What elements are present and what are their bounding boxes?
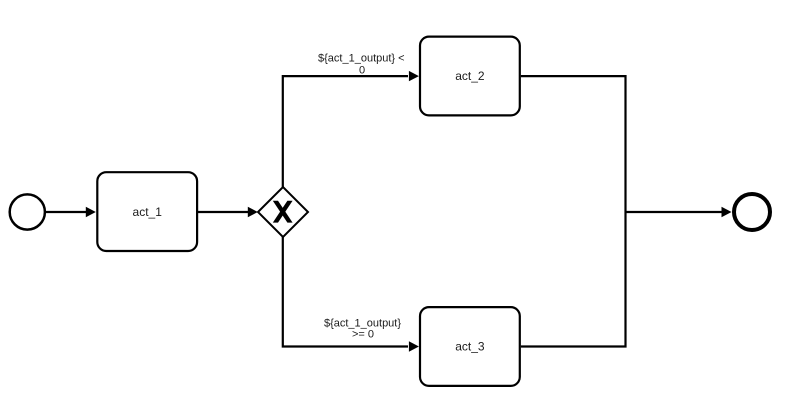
start event (10, 194, 45, 229)
svg-text:${act_1_output}: ${act_1_output} (324, 317, 401, 329)
wire join to end event (626, 211, 723, 213)
wire act_3 to join (521, 212, 626, 347)
svg-text:>= 0: >= 0 (352, 329, 374, 341)
wire act_2 to join (521, 76, 626, 212)
task act_2 (420, 37, 520, 116)
task act_1 (97, 172, 197, 251)
wire act_1 to gateway (198, 211, 250, 213)
svg-text:${act_1_output} <: ${act_1_output} < (318, 52, 405, 64)
wire gateway to act_2 (283, 76, 408, 187)
svg-text:act_2: act_2 (455, 69, 485, 83)
svg-text:0: 0 (359, 64, 365, 76)
gateway X (exclusive) (258, 187, 308, 237)
wire gateway to act_3 (283, 237, 408, 347)
svg-text:act_1: act_1 (133, 205, 163, 219)
task act_3 (420, 307, 520, 386)
svg-text:act_3: act_3 (455, 340, 485, 354)
wire start to act_1 (46, 211, 87, 213)
end event (734, 194, 770, 230)
